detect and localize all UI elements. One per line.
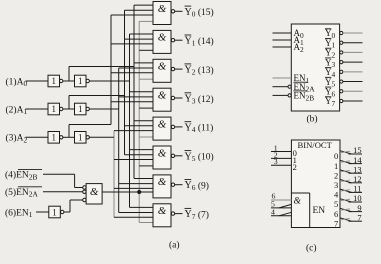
- wire: output of gate G0: [175, 10, 183, 12]
- wire: gate Y7 input stub from A1 bus: [119, 212, 153, 214]
- wire: input pin 6 (EN1) of (c): [271, 199, 291, 201]
- bubble of inverter 2 (A2 row): [86, 136, 89, 139]
- svg-text:6: 6: [334, 209, 338, 219]
- wire: between inverters A2 row: [63, 136, 75, 138]
- inverter 2 of A1 row: [75, 103, 87, 115]
- wire: output of gate G6: [175, 184, 183, 186]
- wire: A0-bar tap horizontal to bus: [69, 66, 134, 68]
- wire + polarity wedge: output pin 7 of (c): [340, 218, 352, 221]
- wire: output Y2 of symbol (b): [343, 51, 363, 53]
- wire: input EN2A of symbol (b): [273, 86, 289, 88]
- wire: gate Y0 input stub from A2 bus: [111, 14, 153, 16]
- wire: output of gate G3: [175, 97, 183, 99]
- wire: gate Y3 input stub from A2 bus: [111, 101, 153, 103]
- svg-text:BIN/OCT: BIN/OCT: [298, 140, 333, 150]
- svg-text:2: 2: [293, 162, 297, 172]
- svg-text:&: &: [158, 118, 167, 130]
- output bubble Y0 on (b): [340, 31, 343, 34]
- wire + polarity wedge: input pin 4 of (c): [271, 215, 291, 217]
- wire: gate Y5 enable stub from EN bus: [139, 165, 153, 167]
- svg-text:Y4 (11): Y4 (11): [185, 122, 214, 134]
- inverter 1 of A2 row: [48, 132, 60, 144]
- wire: gate Y5 input stub from A0 bus: [130, 149, 154, 151]
- svg-text:Y2 (13): Y2 (13): [185, 65, 214, 77]
- svg-text:1: 1: [51, 133, 56, 143]
- svg-text:9: 9: [357, 204, 361, 213]
- wire + polarity wedge: output pin 11 of (c): [340, 189, 352, 192]
- svg-text:Y0 (15): Y0 (15): [185, 7, 214, 19]
- svg-text:Y3 (12): Y3 (12): [185, 94, 214, 106]
- output bubble Y1 on (b): [340, 41, 343, 44]
- inverter 2 of A0 row: [75, 75, 87, 87]
- wire: input A2 of symbol (b): [273, 46, 292, 48]
- wire: output Y5 of symbol (b): [343, 81, 363, 83]
- svg-text:(1)A0: (1)A0: [6, 76, 28, 88]
- svg-text:7: 7: [334, 218, 338, 228]
- wire + polarity wedge: output pin 14 of (c): [340, 160, 352, 163]
- svg-text:(a): (a): [169, 240, 180, 251]
- wire: gate Y2 input stub from A1 bus: [119, 67, 153, 69]
- wire: input pin 3 of (c): [271, 164, 291, 166]
- wire: A1 vertical bus: [118, 68, 120, 213]
- bubble of inverter 2 (A0 row): [86, 79, 89, 82]
- svg-text:7: 7: [357, 213, 361, 222]
- input bubble EN2B on AND-enable gate: [83, 186, 86, 189]
- bubble of inverter 2 (A1 row): [86, 107, 89, 110]
- wire: input pin 1 of (c): [271, 151, 291, 153]
- svg-text:(3)A2: (3)A2: [6, 133, 28, 145]
- wire: gate Y2 enable stub from EN bus: [139, 78, 153, 80]
- wire: gate Y6 input stub from A2 bus: [114, 187, 153, 189]
- svg-text:Y5 (10): Y5 (10): [185, 151, 214, 163]
- wire: gate Y4 input stub from A2 bus: [114, 130, 153, 132]
- wire: input A1 of symbol (b): [273, 39, 292, 41]
- output bubble of gate G3: [171, 96, 174, 99]
- output bubble of gate G1: [171, 39, 174, 42]
- svg-text:1: 1: [52, 207, 57, 217]
- AND gate G3 for output Y3: [153, 88, 171, 111]
- svg-text:&: &: [158, 61, 167, 73]
- wire: A1 buffered output to bus: [89, 108, 118, 110]
- wire: A1 input to first inverter: [26, 108, 49, 110]
- wire: gate Y4 input stub from A0 bus: [134, 120, 153, 122]
- wire + polarity wedge: output pin 9 of (c): [340, 208, 352, 211]
- AND gate G4 for output Y4: [153, 117, 171, 140]
- wire: A0 buffered output to bus: [89, 80, 129, 82]
- svg-text:&: &: [158, 32, 167, 44]
- wire: output Y0 of symbol (b): [343, 32, 363, 34]
- AND-enable gate U-EN: [86, 184, 102, 204]
- svg-text:EN: EN: [313, 206, 326, 216]
- bubble of EN1 inverter: [61, 210, 64, 213]
- output bubble Y3 on (b): [340, 61, 343, 64]
- wire: gate Y2 input stub from A0 bus: [134, 62, 153, 64]
- wire: A2-bar vertical bus: [110, 15, 112, 125]
- svg-text:15: 15: [353, 146, 361, 155]
- svg-text:(6)EN1: (6)EN1: [5, 207, 33, 219]
- wire: gate Y0 input stub from A0 bus: [134, 4, 153, 6]
- svg-text:2: 2: [334, 170, 338, 180]
- bubble EN2A on (b): [288, 85, 291, 88]
- wire: EN2B to AND-enable gate: [43, 173, 75, 175]
- wire: input EN1 of symbol (b): [273, 77, 292, 79]
- wire + polarity wedge: input pin 5 of (c): [271, 207, 291, 209]
- wire: A0 input to first inverter: [26, 80, 49, 82]
- svg-text:11: 11: [353, 185, 361, 194]
- bubble of inverter 1 (A0 row): [60, 79, 63, 82]
- wire: EN1 to inverter: [36, 211, 49, 213]
- inverter 1 of A0 row: [48, 75, 60, 87]
- AND gate G1 for output Y1: [153, 30, 171, 53]
- svg-text:4: 4: [271, 207, 275, 216]
- wire: gate Y6 input stub from A0 bus: [134, 178, 153, 180]
- svg-text:5: 5: [334, 199, 338, 209]
- IC symbol box (b): [291, 24, 339, 111]
- svg-text:12: 12: [353, 175, 361, 184]
- svg-text:(c): (c): [306, 243, 317, 254]
- bubble EN2B on (b): [288, 94, 291, 97]
- wire: output of gate G4: [175, 126, 183, 128]
- output bubble Y7 on (b): [340, 99, 343, 102]
- EN sub-block divider in (c): [291, 192, 309, 194]
- wire: A0 vertical bus: [129, 34, 131, 207]
- IEC symbol box (c): [291, 140, 340, 228]
- wire: gate Y5 input stub from A2 bus: [114, 159, 153, 161]
- wire: gate Y6 input stub from A1 bus: [119, 183, 153, 185]
- svg-text:(b): (b): [307, 114, 318, 125]
- svg-text:&: &: [158, 90, 167, 102]
- wire: output Y3 of symbol (b): [343, 61, 363, 63]
- wire: gate Y3 enable stub from EN bus: [139, 107, 153, 109]
- wire + polarity wedge: output pin 12 of (c): [340, 180, 352, 183]
- wire: A2-bar tap vertical: [68, 125, 70, 138]
- wire: gate Y2 input stub from A2 bus: [111, 72, 153, 74]
- svg-text:&: &: [158, 176, 167, 188]
- wire: between inverters A0 row: [63, 80, 75, 82]
- svg-text:10: 10: [353, 194, 361, 203]
- wire: output Y6 of symbol (b): [343, 90, 363, 92]
- svg-text:Y1 (14): Y1 (14): [185, 36, 214, 48]
- AND gate G7 for output Y7: [153, 204, 171, 227]
- wire: A1-bar tap horizontal to bus: [69, 95, 125, 97]
- output bubble Y6 on (b): [340, 90, 343, 93]
- wire: gate Y7 input stub from A0 bus: [130, 206, 154, 208]
- wire: output Y1 of symbol (b): [343, 42, 363, 44]
- svg-text:1: 1: [78, 133, 83, 143]
- bubble of inverter 1 (A2 row): [60, 136, 63, 139]
- svg-text:1: 1: [78, 104, 83, 114]
- svg-text:1: 1: [51, 76, 56, 86]
- wire: input A0 of symbol (b): [273, 32, 292, 34]
- wire: gate Y4 input stub from A1 bus: [125, 125, 154, 127]
- output bubble of gate G7: [171, 212, 174, 215]
- wire: A0-bar tap vertical: [68, 67, 70, 82]
- svg-text:Y7 (7): Y7 (7): [185, 209, 209, 221]
- output bubble of gate G5: [171, 154, 174, 157]
- wire: gate Y4 enable stub from EN bus: [139, 136, 153, 138]
- svg-text:&: &: [158, 3, 167, 15]
- wire: between inverters A1 row: [63, 108, 75, 110]
- svg-text:1: 1: [78, 76, 83, 86]
- output bubble of gate G4: [171, 125, 174, 128]
- svg-text:&: &: [158, 205, 167, 217]
- wire: output of gate G7: [175, 213, 183, 215]
- inverter 2 of A2 row: [75, 132, 87, 144]
- wire: input EN2B of symbol (b): [273, 94, 289, 96]
- AND gate G6 for output Y6: [153, 175, 171, 198]
- wire: gate Y0 input stub from A1 bus: [125, 9, 154, 11]
- wire: input pin 2 of (c): [271, 157, 291, 159]
- svg-text:1: 1: [334, 161, 338, 171]
- svg-text:&: &: [90, 186, 99, 198]
- svg-text:13: 13: [353, 165, 361, 174]
- svg-text:0: 0: [334, 151, 338, 161]
- inverter of EN1 row: [49, 206, 61, 218]
- wire: gate Y1 input stub from A2 bus: [111, 43, 153, 45]
- svg-text:3: 3: [274, 157, 278, 166]
- wire: EN1 inverter output to AND-enable gate: [64, 211, 70, 213]
- wire: gate Y3 input stub from A1 bus: [119, 96, 153, 98]
- AND gate G0 for output Y0: [153, 2, 171, 25]
- wire + polarity wedge: output pin 15 of (c): [340, 151, 352, 154]
- svg-text:(2)A1: (2)A1: [6, 104, 28, 116]
- svg-text:3: 3: [334, 180, 338, 190]
- wire: output of gate G5: [175, 155, 183, 157]
- AND gate G5 for output Y5: [153, 146, 171, 169]
- output bubble Y4 on (b): [340, 70, 343, 73]
- wire: A2 buffered output to bus: [89, 136, 114, 138]
- wire: A2 vertical bus: [113, 131, 115, 218]
- wire: A0-bar vertical bus: [133, 5, 135, 178]
- wire + polarity wedge: output pin 13 of (c): [340, 170, 352, 173]
- inverter 1 of A1 row: [48, 103, 60, 115]
- output bubble Y2 on (b): [340, 51, 343, 54]
- wire: gate Y7 input stub from A2 bus: [114, 216, 153, 218]
- wire + polarity wedge: output pin 10 of (c): [340, 199, 352, 202]
- wire: gate Y0 enable stub from EN bus: [139, 20, 153, 22]
- wire: A1-bar vertical bus: [124, 10, 126, 155]
- wire: output Y7 of symbol (b): [343, 100, 363, 102]
- svg-text:Y6 (9): Y6 (9): [185, 180, 209, 192]
- input bubble EN1 on AND-enable gate: [83, 198, 86, 201]
- wire: A1-bar tap vertical: [68, 96, 70, 110]
- wire: gate Y1 input stub from A1 bus: [125, 38, 154, 40]
- output bubble of gate G6: [171, 183, 174, 186]
- input bubble EN2A on AND-enable gate: [83, 190, 86, 193]
- wire: output Y4 of symbol (b): [343, 71, 363, 73]
- wire: gate Y5 input stub from A1 bus: [125, 154, 154, 156]
- output bubble Y5 on (b): [340, 80, 343, 83]
- svg-text:&: &: [158, 147, 167, 159]
- wire: EN2A to AND-enable gate: [43, 191, 83, 193]
- wire: gate Y3 input stub from A0 bus: [130, 91, 154, 93]
- svg-text:(5)EN2A: (5)EN2A: [5, 187, 38, 199]
- junction dot on EN net: [137, 190, 141, 194]
- wire: gate Y1 enable stub from EN bus: [139, 49, 153, 51]
- svg-text:14: 14: [353, 156, 362, 165]
- output bubble of gate G0: [171, 10, 174, 13]
- wire: gate Y7 enable stub: [139, 222, 153, 224]
- output bubble of gate G2: [171, 67, 174, 70]
- wire: A2-bar tap horizontal to bus: [69, 124, 111, 126]
- wire: output of gate G1: [175, 39, 183, 41]
- svg-text:1: 1: [51, 104, 56, 114]
- wire: output of gate G2: [175, 68, 183, 70]
- wire: EN vertical bus: [138, 21, 140, 222]
- wire: gate Y1 input stub from A0 bus: [130, 33, 154, 35]
- svg-text:(4)EN2B: (4)EN2B: [5, 170, 37, 182]
- wire: A2 input to first inverter: [26, 136, 49, 138]
- svg-text:&: &: [294, 197, 302, 207]
- AND gate G2 for output Y2: [153, 59, 171, 82]
- wire: AND-enable output to gate Y6 (EN net): [102, 191, 153, 193]
- bubble of inverter 1 (A1 row): [60, 107, 63, 110]
